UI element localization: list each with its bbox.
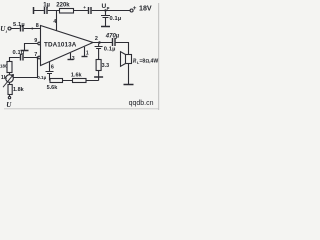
svg-text:1: 1 bbox=[86, 51, 89, 57]
ground speaker bar bbox=[124, 84, 134, 86]
node output junction dot bbox=[98, 41, 100, 43]
svg-text:TDA1013A: TDA1013A bbox=[44, 41, 77, 48]
capacitor C8 0.1u zobel bbox=[95, 43, 103, 60]
node Up junction dot bbox=[104, 9, 106, 11]
svg-text:0.1µ: 0.1µ bbox=[104, 47, 116, 53]
terminal input Ui circle bbox=[8, 27, 11, 30]
svg-text:8: 8 bbox=[36, 23, 39, 29]
wire pin 6 drop from amp bottom edge bbox=[49, 62, 51, 71]
svg-text:3.3: 3.3 bbox=[102, 63, 110, 69]
wire faint right border bbox=[158, 3, 160, 110]
wire pot wiper to pin7 node bbox=[13, 58, 37, 78]
resistor R2 180 body bbox=[7, 62, 12, 73]
resistor R1 220k body bbox=[60, 9, 74, 14]
svg-text:18V: 18V bbox=[139, 5, 152, 13]
wire pot to R3 bbox=[9, 82, 11, 84]
wire output pin 2 bbox=[93, 43, 129, 55]
resistor R3 1.8k body bbox=[8, 85, 12, 95]
svg-text:1µ: 1µ bbox=[43, 3, 50, 9]
svg-text:0.1µ: 0.1µ bbox=[110, 16, 122, 22]
pin 1 stub from bottom edge bbox=[84, 47, 86, 56]
svg-text:180: 180 bbox=[0, 64, 8, 69]
svg-text:9: 9 bbox=[34, 38, 37, 44]
capacitor C5 0.1u pin7 series plates bbox=[21, 54, 24, 61]
loudspeaker BL cone bbox=[121, 52, 126, 67]
potentiometer RP wiper arrow bbox=[3, 74, 14, 87]
svg-text:1.6k: 1.6k bbox=[71, 72, 83, 78]
capacitor C6 0.1u pin6 plates bbox=[46, 72, 54, 81]
wire top supply rail bbox=[34, 10, 131, 12]
svg-text:U: U bbox=[6, 101, 12, 109]
pin 7 circle on amp edge bbox=[38, 56, 41, 59]
svg-text:2: 2 bbox=[95, 36, 98, 42]
pin 3 stub from bottom edge bbox=[70, 53, 72, 59]
wire speaker to ground bbox=[128, 64, 130, 85]
wire faint bottom border bbox=[4, 108, 159, 110]
node input wire dot bbox=[31, 28, 33, 30]
capacitor C3 0.1u supply decoupling bbox=[101, 11, 110, 27]
svg-text:5.6k: 5.6k bbox=[47, 85, 59, 91]
capacitor C4 0.1u input coupling plates bbox=[21, 25, 24, 32]
svg-text:5.1µ: 5.1µ bbox=[13, 22, 25, 28]
wire input to pin 8 bbox=[11, 28, 41, 30]
svg-text:P: P bbox=[107, 6, 110, 11]
capacitor C1 1u plates bbox=[45, 7, 48, 14]
svg-text:+: + bbox=[133, 6, 137, 12]
wire pin 7 to left network bbox=[10, 58, 38, 62]
svg-text:470µ: 470µ bbox=[105, 34, 120, 40]
wire R3 to terminal bbox=[9, 95, 11, 97]
wire bottom feedback run bbox=[50, 80, 99, 82]
terminal bottom control bbox=[8, 96, 10, 98]
svg-text:6: 6 bbox=[51, 65, 54, 71]
ground pin 1 bar bbox=[82, 56, 88, 58]
svg-text:qqdb.cn: qqdb.cn bbox=[129, 100, 154, 107]
capacitor C1 1u left end bar bbox=[33, 7, 35, 14]
resistor R4 5.6k body bbox=[50, 79, 63, 83]
wire pin 9 to ground bbox=[25, 44, 38, 51]
ground zobel bar bbox=[94, 76, 103, 78]
ground supply decoupling bbox=[101, 26, 110, 28]
node pin7 junction dot bbox=[36, 56, 38, 58]
svg-text:1.8k: 1.8k bbox=[13, 87, 25, 93]
svg-text:4: 4 bbox=[53, 19, 56, 25]
resistor R5 1.6k body bbox=[73, 79, 87, 83]
svg-text:0.1µ: 0.1µ bbox=[13, 50, 25, 56]
op-amp U1 TDA1013A triangle bbox=[41, 26, 94, 66]
resistor R6 3.3 body bbox=[96, 60, 101, 71]
loudspeaker BL coil box bbox=[126, 55, 132, 64]
svg-text:220k: 220k bbox=[56, 3, 70, 9]
terminal +18V circle bbox=[130, 9, 133, 12]
capacitor C7 470u plates bbox=[113, 38, 116, 46]
svg-text:7: 7 bbox=[34, 52, 37, 58]
wire pin 4 drop from rail to amp top edge bbox=[56, 11, 58, 31]
svg-text:+: + bbox=[83, 5, 86, 10]
svg-text:=8Ω,4W: =8Ω,4W bbox=[139, 59, 158, 65]
svg-text:i: i bbox=[6, 29, 8, 34]
ground pin 9 bbox=[21, 50, 29, 52]
capacitor C2 plates on rail bbox=[89, 7, 92, 14]
pin 9 circle on amp edge bbox=[38, 42, 41, 45]
potentiometer RP 1k circle bbox=[6, 75, 14, 83]
wire R2 to pot bbox=[9, 73, 11, 75]
svg-text:1k: 1k bbox=[1, 75, 7, 81]
svg-text:0.1µ: 0.1µ bbox=[37, 75, 46, 80]
svg-text:3: 3 bbox=[72, 56, 75, 62]
wire R6 to ground bbox=[98, 71, 100, 81]
ground pin 3 bar bbox=[68, 59, 74, 61]
svg-text:R: R bbox=[132, 59, 137, 65]
